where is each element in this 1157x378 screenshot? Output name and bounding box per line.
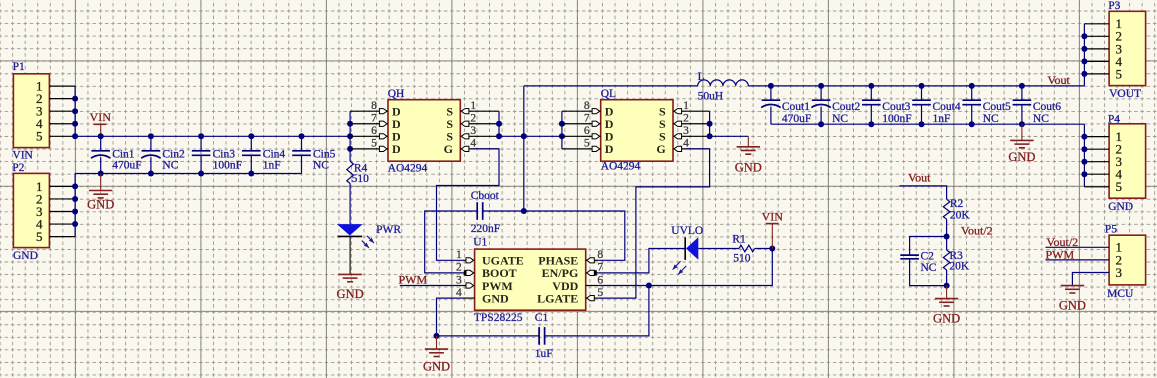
wire R3 to ground node <box>946 270 948 286</box>
svg-text:NC: NC <box>921 262 937 274</box>
wire QH gate to UGATE <box>437 149 500 260</box>
connector P3 body <box>1109 11 1146 85</box>
svg-text:6: 6 <box>371 125 377 137</box>
svg-text:VIN: VIN <box>90 110 112 124</box>
junction P4 bus <box>1081 146 1087 152</box>
wire LED to R1 <box>698 248 739 250</box>
connector P3 pin 3 <box>1084 48 1109 50</box>
capacitor C1 <box>538 327 540 345</box>
svg-text:5: 5 <box>36 229 43 244</box>
svg-text:470uF: 470uF <box>782 113 811 125</box>
svg-text:5: 5 <box>597 287 603 299</box>
capacitor Cin3 <box>200 136 202 151</box>
resistor R3 <box>943 250 950 270</box>
ground at PWR LED <box>338 273 361 275</box>
connector P1 pin 2 <box>49 98 75 100</box>
junction Cout4 bottom <box>919 121 925 127</box>
wire C2 branch bottom <box>910 259 947 286</box>
capacitor Cout1 <box>770 86 772 100</box>
ground at P5 <box>1061 285 1084 287</box>
wire P3 bus vertical <box>1083 24 1085 86</box>
junction VDD/C1 <box>646 283 652 289</box>
wire R2 to node <box>946 219 948 250</box>
capacitor Cout4 <box>921 86 923 100</box>
connector P2 pin 5 <box>49 236 75 238</box>
capacitor Cin5 <box>301 136 303 151</box>
transistor QH pin 8 (D) <box>350 110 388 112</box>
svg-text:GND: GND <box>482 291 509 305</box>
svg-text:Cout3: Cout3 <box>882 101 910 113</box>
junction P1 bus <box>72 108 78 114</box>
junction QH drain bus <box>347 146 353 152</box>
wire Cin bottom rail <box>75 173 301 175</box>
svg-text:1: 1 <box>470 100 476 112</box>
svg-text:GND: GND <box>13 250 38 262</box>
junction P3 bus <box>1081 46 1087 52</box>
transistor QH body <box>388 100 460 162</box>
junction Cin4 bottom <box>248 171 254 177</box>
svg-text:8: 8 <box>597 249 603 261</box>
svg-text:D: D <box>392 142 401 156</box>
transistor QL pin 3 <box>673 135 710 137</box>
transistor QH pin 6 (D) <box>350 135 388 137</box>
junction QH drain bus <box>347 121 353 127</box>
junction Vout/2 node <box>944 234 950 240</box>
junction Cin2 bottom <box>148 171 154 177</box>
junction QL source 2 <box>707 133 713 139</box>
svg-text:20K: 20K <box>950 210 971 222</box>
svg-text:3: 3 <box>683 125 689 137</box>
svg-text:C2: C2 <box>921 250 935 262</box>
wire C2 branch top <box>910 237 947 256</box>
svg-text:7: 7 <box>584 113 590 125</box>
svg-text:8: 8 <box>371 100 377 112</box>
svg-text:Cboot: Cboot <box>471 190 500 202</box>
svg-text:TPS28225: TPS28225 <box>474 312 523 324</box>
junction Cin3 top <box>198 133 204 139</box>
wire P2 pin bus vertical <box>74 174 76 237</box>
junction QL drain bus 2 <box>559 133 565 139</box>
wire C1 left <box>437 335 540 337</box>
junction P2 bus <box>72 196 78 202</box>
IC U1 pin 4 <box>462 297 474 299</box>
svg-text:QL: QL <box>601 88 616 100</box>
IC U1 pin 6 <box>586 285 599 287</box>
ground at divider <box>946 286 948 299</box>
resistor R1 <box>739 245 755 252</box>
ground at QL source <box>747 136 749 147</box>
wire C1 right to VDD <box>545 286 649 336</box>
svg-text:LGATE: LGATE <box>537 291 578 305</box>
svg-text:NC: NC <box>983 113 999 125</box>
wire VDD rail <box>598 249 772 286</box>
svg-text:GND: GND <box>1108 201 1133 213</box>
junction Cout4 top <box>919 83 925 89</box>
IC U1 body <box>475 249 586 310</box>
svg-text:G: G <box>656 142 665 156</box>
wire phase node vertical <box>523 86 525 211</box>
transistor QL pin 2 <box>673 123 710 125</box>
svg-text:UVLO: UVLO <box>671 225 703 237</box>
junction P4 bus <box>1081 159 1087 165</box>
svg-text:7: 7 <box>597 262 603 274</box>
svg-text:NC: NC <box>1033 113 1049 125</box>
wire phase to QL drains <box>524 135 562 137</box>
svg-text:P3: P3 <box>1108 0 1120 12</box>
svg-text:Cout2: Cout2 <box>832 101 860 113</box>
capacitor Cout6 <box>1021 86 1023 100</box>
junction Cin2 top <box>148 133 154 139</box>
svg-text:VOUT: VOUT <box>1109 88 1141 100</box>
svg-text:GND: GND <box>1008 150 1035 164</box>
transistor QH pin 2 <box>460 123 499 125</box>
connector P4 pin 5 <box>1084 186 1109 188</box>
svg-text:PWR: PWR <box>376 224 401 236</box>
wire QH source bus <box>498 111 500 136</box>
svg-text:1nF: 1nF <box>263 160 281 172</box>
transistor QL pin 7 (D) <box>562 123 601 125</box>
wire Vout stub <box>899 186 946 199</box>
svg-text:4: 4 <box>683 138 689 150</box>
svg-text:5: 5 <box>584 138 590 150</box>
wire R1 to VIN node <box>755 248 773 250</box>
wire P5 pin3 to ground <box>1072 273 1109 286</box>
transistor QH pin 1 <box>460 110 499 112</box>
transistor QL pin 8 (D) <box>562 110 601 112</box>
capacitor C2 <box>900 254 919 256</box>
connector P2 body <box>13 173 49 247</box>
junction VIN/VDD/R1 <box>769 246 775 252</box>
svg-text:GND: GND <box>423 359 450 373</box>
svg-text:R1: R1 <box>732 234 746 246</box>
junction Cout3 bottom <box>868 121 874 127</box>
svg-text:Vout/2: Vout/2 <box>961 224 993 238</box>
svg-text:3: 3 <box>470 125 476 137</box>
junction P1 bus <box>72 96 78 102</box>
junction QH source to phase <box>496 133 502 139</box>
svg-text:5: 5 <box>371 138 377 150</box>
junction QL drain bus 1 <box>559 121 565 127</box>
connector P5 body <box>1109 235 1146 285</box>
junction P2 bus <box>72 221 78 227</box>
svg-text:6: 6 <box>584 125 590 137</box>
svg-text:8: 8 <box>584 100 590 112</box>
svg-text:GND: GND <box>87 198 114 212</box>
connector P1 pin 4 <box>49 123 75 125</box>
capacitor Cin2 <box>150 136 152 151</box>
svg-text:3: 3 <box>1116 265 1123 280</box>
connector P2 pin 4 <box>49 223 75 225</box>
svg-text:Cout6: Cout6 <box>1033 101 1061 113</box>
svg-text:C1: C1 <box>535 312 549 324</box>
IC U1 pin 3 <box>462 285 474 287</box>
wire P5 pin1 <box>1046 246 1110 248</box>
connector P3 pin 5 <box>1084 73 1109 75</box>
junction Cout2 bottom <box>818 121 824 127</box>
svg-text:50uH: 50uH <box>698 91 724 103</box>
wire top rail to inductor <box>524 85 698 87</box>
connector P4 pin 4 <box>1084 173 1109 175</box>
LED PWR <box>337 224 363 235</box>
svg-text:470uF: 470uF <box>112 160 141 172</box>
svg-text:U1: U1 <box>473 236 487 248</box>
wire QL gate <box>598 149 709 298</box>
svg-text:PWM: PWM <box>399 273 428 287</box>
svg-text:100nF: 100nF <box>882 113 911 125</box>
svg-text:GND: GND <box>337 287 364 301</box>
ground at Cin1 <box>100 174 102 191</box>
junction phase/QL <box>521 133 527 139</box>
connector P3 pin 2 <box>1084 35 1109 37</box>
junction Cout3 top <box>868 83 874 89</box>
svg-text:NC: NC <box>832 113 848 125</box>
svg-text:AO4294: AO4294 <box>601 160 641 172</box>
svg-text:100nF: 100nF <box>213 160 242 172</box>
wire phase rail to PHASE pin <box>524 211 625 260</box>
capacitor Cout3 <box>870 86 872 100</box>
junction P2 bus <box>72 209 78 215</box>
svg-text:5: 5 <box>1116 179 1123 194</box>
svg-text:GND: GND <box>1059 298 1086 312</box>
wire P1 pin bus vertical <box>74 86 76 136</box>
junction phase/Cboot <box>521 208 527 214</box>
wire Cboot to phase <box>483 210 524 212</box>
svg-text:L: L <box>698 71 705 83</box>
svg-text:P2: P2 <box>12 162 24 174</box>
svg-text:R2: R2 <box>950 198 964 210</box>
junction Cout6 bottom <box>1019 121 1025 127</box>
wire QH drain bus vertical <box>349 111 351 161</box>
junction Cout1 top <box>768 83 774 89</box>
transistor QL pin 1 <box>673 110 710 112</box>
connector P1 pin 1 <box>49 85 75 87</box>
svg-text:2: 2 <box>456 262 462 274</box>
svg-text:VIN: VIN <box>12 150 33 162</box>
svg-text:1uF: 1uF <box>535 348 553 360</box>
junction P1 bus <box>72 133 78 139</box>
IC U1 pin 5 <box>586 297 599 299</box>
junction Cin5 top <box>299 133 305 139</box>
connector P4 pin 2 <box>1084 148 1109 150</box>
junction Cout6 top <box>1019 83 1025 89</box>
connector P1 body <box>13 74 49 148</box>
wire LED to ground <box>349 236 351 274</box>
svg-text:1nF: 1nF <box>933 113 951 125</box>
svg-text:QH: QH <box>388 88 405 100</box>
svg-text:7: 7 <box>371 113 377 125</box>
connector P3 pin 1 <box>1084 23 1109 25</box>
junction QH drain bus <box>347 133 353 139</box>
junction Cout2 top <box>818 83 824 89</box>
junction Cout5 bottom <box>969 121 975 127</box>
svg-text:6: 6 <box>597 274 603 286</box>
junction P1 bus <box>72 121 78 127</box>
svg-text:Vout: Vout <box>1047 73 1070 87</box>
connector P1 pin 5 <box>49 135 75 137</box>
wire inductor to Vout rail <box>748 85 1084 87</box>
svg-text:GND: GND <box>735 160 762 174</box>
svg-text:510: 510 <box>733 253 751 265</box>
wire EN/PG up <box>598 249 685 273</box>
junction QH source <box>496 121 502 127</box>
svg-text:2: 2 <box>683 113 689 125</box>
junction U1 ground node <box>434 333 440 339</box>
wire P5 pin2 <box>1046 259 1110 261</box>
connector P4 pin 1 <box>1084 136 1109 138</box>
svg-text:MCU: MCU <box>1107 288 1134 300</box>
junction P3 bus <box>1081 58 1087 64</box>
wire Cout rail to P4 <box>1083 124 1085 187</box>
svg-text:GND: GND <box>933 312 960 326</box>
svg-text:P4: P4 <box>1108 113 1120 125</box>
connector P2 pin 3 <box>49 211 75 213</box>
junction Cin1 bottom <box>98 171 104 177</box>
wire PWM <box>400 285 463 287</box>
ground at U1 <box>436 336 438 349</box>
connector P1 pin 3 <box>49 110 75 112</box>
wire R4 to LED <box>349 184 351 225</box>
svg-text:5: 5 <box>1116 66 1123 81</box>
transistor QH pin 4 <box>460 148 499 150</box>
IC U1 pin 1 <box>462 259 474 261</box>
svg-text:4: 4 <box>470 138 476 150</box>
capacitor Cboot <box>476 202 478 220</box>
transistor QL pin 6 (D) <box>562 135 601 137</box>
svg-text:1: 1 <box>683 100 689 112</box>
junction P2 bus <box>72 183 78 189</box>
wire QL drain bus vertical <box>561 111 563 149</box>
capacitor Cout2 <box>820 86 822 100</box>
connector P2 pin 1 <box>49 185 75 187</box>
junction Cin4 top <box>248 133 254 139</box>
IC U1 pin 8 <box>586 259 599 261</box>
svg-text:AO4294: AO4294 <box>388 162 428 174</box>
wire U1 GND pin down <box>437 298 463 336</box>
junction P4 bus <box>1081 134 1087 140</box>
svg-text:1: 1 <box>456 249 462 261</box>
IC U1 pin 2 <box>462 272 474 274</box>
resistor R2 <box>943 199 950 219</box>
LED UVLO <box>686 237 698 259</box>
svg-text:4: 4 <box>456 287 462 299</box>
transistor QH pin 7 (D) <box>350 123 388 125</box>
connector P4 body <box>1109 124 1146 198</box>
svg-text:20K: 20K <box>949 261 970 273</box>
wire QL source bus <box>709 111 711 136</box>
transistor QH pin 5 (D) <box>350 148 388 150</box>
svg-text:NC: NC <box>162 160 178 172</box>
junction Cin1 top <box>98 133 104 139</box>
IC U1 pin 7 <box>586 272 599 274</box>
svg-text:VIN: VIN <box>762 210 784 224</box>
connector P4 pin 3 <box>1084 161 1109 163</box>
svg-text:D: D <box>605 142 614 156</box>
svg-text:G: G <box>444 142 453 156</box>
junction divider ground node <box>944 283 950 289</box>
svg-text:Cout4: Cout4 <box>933 101 961 113</box>
inductor L <box>698 80 749 86</box>
svg-text:P5: P5 <box>1105 223 1117 235</box>
svg-text:3: 3 <box>456 274 462 286</box>
connector P2 pin 2 <box>49 198 75 200</box>
resistor R4 <box>347 161 354 183</box>
capacitor Cin4 <box>250 136 252 151</box>
wire BOOT to Cboot <box>425 211 478 273</box>
transistor QH pin 3 <box>460 135 499 137</box>
junction P3 bus <box>1081 33 1087 39</box>
svg-text:510: 510 <box>352 173 370 185</box>
capacitor Cout5 <box>971 86 973 100</box>
svg-text:P1: P1 <box>13 61 25 73</box>
junction P3 bus <box>1081 71 1087 77</box>
ground at Cout6 <box>1021 124 1023 140</box>
transistor QL pin 5 (D) <box>562 148 601 150</box>
svg-text:Cout1: Cout1 <box>782 101 810 113</box>
wire Cout bottom rail <box>771 123 1085 125</box>
svg-text:Vout: Vout <box>908 171 931 185</box>
junction Cout5 top <box>969 83 975 89</box>
junction P4 bus <box>1081 171 1087 177</box>
connector P3 pin 4 <box>1084 60 1109 62</box>
svg-text:5: 5 <box>36 129 43 144</box>
transistor QL pin 4 <box>673 148 710 150</box>
svg-text:Cout5: Cout5 <box>983 101 1011 113</box>
svg-text:NC: NC <box>313 160 329 172</box>
junction QL source 1 <box>707 121 713 127</box>
wire VIN rail <box>75 135 350 137</box>
transistor QL body <box>601 100 673 162</box>
svg-text:220nF: 220nF <box>471 223 500 235</box>
svg-text:2: 2 <box>470 113 476 125</box>
junction Cin3 bottom <box>198 171 204 177</box>
capacitor Cin1 <box>100 136 102 151</box>
